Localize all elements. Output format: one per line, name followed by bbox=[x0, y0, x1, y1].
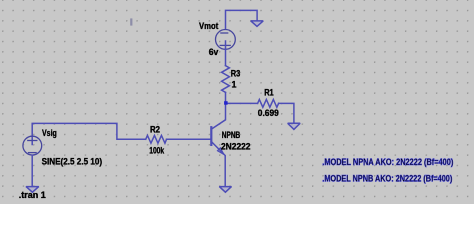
svg-text:1: 1 bbox=[232, 80, 237, 90]
svg-text:.MODEL NPNB AKO: 2N2222 (Bf=40: .MODEL NPNB AKO: 2N2222 (Bf=400) bbox=[322, 174, 452, 184]
svg-text:SINE(2.5 2.5 10): SINE(2.5 2.5 10) bbox=[42, 157, 103, 167]
svg-text:0.699: 0.699 bbox=[258, 108, 279, 118]
svg-text:100k: 100k bbox=[149, 145, 164, 155]
svg-text:Vmot: Vmot bbox=[199, 21, 218, 31]
svg-text:6v: 6v bbox=[209, 47, 219, 57]
svg-text:R2: R2 bbox=[150, 125, 160, 135]
svg-text:R3: R3 bbox=[231, 69, 241, 79]
svg-text:.MODEL NPNA AKO: 2N2222 (Bf=40: .MODEL NPNA AKO: 2N2222 (Bf=400) bbox=[322, 157, 453, 167]
svg-text:.tran 1: .tran 1 bbox=[19, 190, 46, 200]
svg-text:Vsig: Vsig bbox=[42, 128, 57, 138]
svg-text:NPNB: NPNB bbox=[222, 130, 240, 140]
svg-text:2N2222: 2N2222 bbox=[221, 142, 251, 152]
svg-text:R1: R1 bbox=[264, 88, 274, 98]
